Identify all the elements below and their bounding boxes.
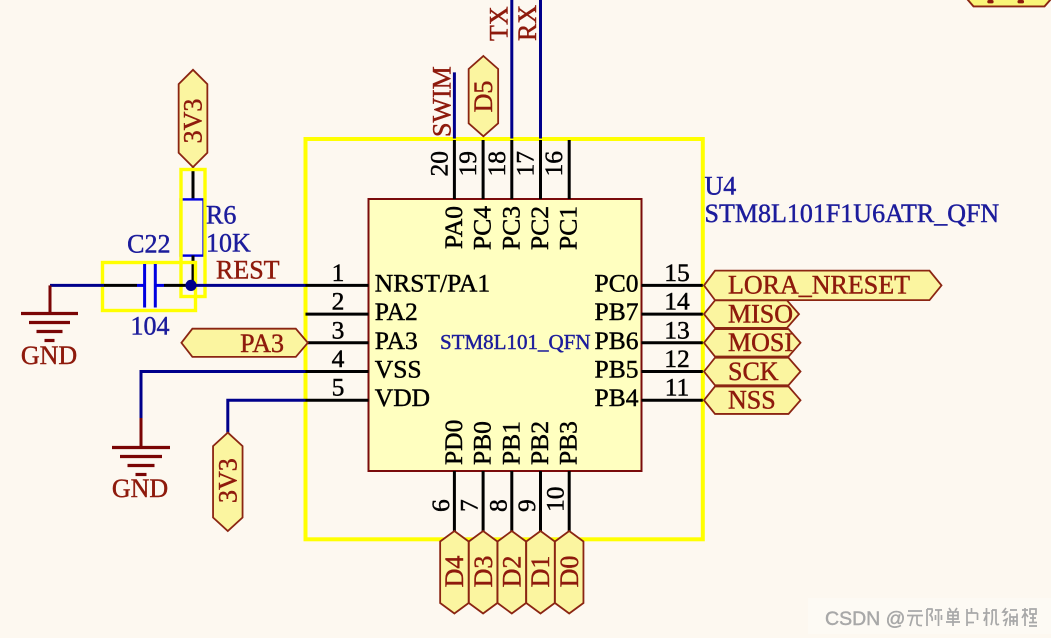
svg-text:10K: 10K [206,229,251,258]
svg-text:PB4: PB4 [595,383,639,412]
pin 13 (PB6) right [595,315,703,355]
wire left of C22 (blue) [50,284,104,287]
svg-text:MISO: MISO [728,299,793,328]
svg-text:3V3: 3V3 [214,458,243,503]
svg-text:1: 1 [332,258,345,287]
pin 6 (PD0) bottom [426,420,468,531]
svg-text:104: 104 [131,312,170,341]
svg-text:15: 15 [664,258,690,287]
selection highlight box around R6 [181,170,205,297]
wire VDD (pin 5) to 3V3 [228,400,306,432]
svg-text:8: 8 [483,499,512,512]
svg-text:PB1: PB1 [496,421,525,465]
svg-text:PC2: PC2 [525,206,554,250]
wire GND to C22 (black segment) [104,284,137,287]
svg-text:CSDN @: CSDN @ [825,608,905,630]
wire junction to pin 1 (REST net) [191,284,306,287]
pin 14 (PB7) right [595,287,703,327]
svg-text:14: 14 [664,287,690,316]
svg-text:NSS: NSS [728,386,776,415]
svg-text:RX: RX [513,5,542,41]
svg-text:U4: U4 [705,172,737,201]
pin 11 (PB4) right [595,373,703,413]
svg-text:18: 18 [482,151,511,177]
net flag D4 (pin 6) [440,531,469,614]
net flag D1 (pin 9) [526,531,555,614]
wire SWIM net (pin 20) [453,72,456,138]
svg-text:D2: D2 [498,556,527,588]
junction dot REST node [185,280,196,291]
resistor R6 body [181,199,204,255]
svg-text:7: 7 [455,499,484,512]
pin 15 (PC0) right [595,258,703,298]
net flag D2 (pin 8) [498,531,527,614]
ground symbol GND (VSS) [112,418,170,503]
svg-text:R6: R6 [206,201,236,230]
pin 12 (PB5) right [595,344,703,384]
watermark CSDN @wuji mcu programming [808,598,1051,634]
svg-text:PB3: PB3 [554,421,583,465]
svg-text:PB7: PB7 [595,297,639,326]
net flag SCK (pin 12) [704,357,801,386]
op-amp U4 body (IC STM8L101) [369,199,642,471]
wire TX net (pin 18) [510,0,513,139]
ground symbol GND (left of C22) [21,285,78,370]
svg-text:GND: GND [21,341,77,370]
svg-text:SWIM: SWIM [428,66,457,137]
net flag PA3 (pin 3) [181,329,307,358]
pin 10 (PB3) bottom [541,421,583,531]
pin 19 (PC4) top [453,140,497,250]
pin 20 (PA0) top [424,140,468,249]
svg-text:19: 19 [453,151,482,177]
svg-text:PD0: PD0 [439,420,468,465]
svg-text:D3: D3 [469,556,498,588]
svg-text:D5: D5 [469,81,498,113]
net flag MISO (pin 14) [704,299,799,328]
pin 16 (PC1) top [539,140,583,250]
pin 2 (PA2) left [306,287,418,327]
wire VSS (pin 4) to ground [141,372,306,419]
pin 1 (NRST/PA1) left [306,258,491,298]
net flag D3 (pin 7) [469,531,498,614]
selection highlight box around U4 [306,139,703,539]
svg-text:REST: REST [216,256,280,285]
wire R6 to REST node [192,256,195,286]
net flag D0 (pin 10) [555,531,584,614]
svg-text:10: 10 [541,487,570,513]
svg-text:4: 4 [332,344,345,373]
wire C22 to junction (black) [164,284,191,287]
svg-text:PC3: PC3 [496,206,525,250]
svg-text:12: 12 [664,344,690,373]
svg-text:NRST/PA1: NRST/PA1 [375,268,490,297]
svg-text:5: 5 [332,373,345,402]
svg-text:PC1: PC1 [554,206,583,250]
svg-text:PA0: PA0 [439,206,468,249]
pin 3 (PA3) left [306,315,418,355]
net flag LORA_NRESET (pin 15) [704,271,942,301]
svg-text:16: 16 [539,151,568,177]
svg-text:D1: D1 [526,556,555,588]
net flag MOSI (pin 13) [704,328,801,357]
net flag D5 (pin 19) [469,56,499,136]
pin 9 (PB2) bottom [512,421,554,531]
svg-text:2: 2 [332,287,345,316]
pin 7 (PB0) bottom [455,421,497,531]
svg-text:LORA_NRESET: LORA_NRESET [728,271,910,300]
pin 4 (VSS) left [306,344,422,384]
svg-text:13: 13 [664,315,690,344]
svg-text:PC0: PC0 [595,268,639,297]
svg-text:9: 9 [512,499,541,512]
svg-text:PC4: PC4 [468,206,497,250]
pin 18 (PC3) top [482,140,526,250]
svg-text:3: 3 [332,315,345,344]
power flag 3V3 (VDD) [213,433,243,531]
svg-text:VDD: VDD [375,383,430,412]
svg-text:C22: C22 [127,230,170,259]
svg-text:SCK: SCK [728,357,779,386]
svg-text:STM8L101_QFN: STM8L101_QFN [440,330,591,354]
svg-text:20: 20 [424,151,453,177]
wire RX net (pin 17) [539,0,542,139]
svg-text:STM8L101F1U6ATR_QFN: STM8L101F1U6ATR_QFN [705,199,1000,228]
partial net flag (top right, cut off) [965,0,1051,6]
svg-text:6: 6 [426,499,455,512]
pin 17 (PC2) top [511,140,555,250]
svg-text:D0: D0 [555,556,584,588]
svg-text:GND: GND [112,474,168,503]
svg-text:D4: D4 [440,556,469,588]
wire 3V3 flag to R6 [192,168,195,200]
svg-text:PB2: PB2 [525,421,554,465]
svg-text:17: 17 [511,151,540,177]
svg-text:VSS: VSS [375,355,422,384]
svg-text:11: 11 [665,373,690,402]
svg-text:PA2: PA2 [375,297,418,326]
selection highlight box around C22 [103,263,196,311]
capacitor C22 [137,264,164,308]
net flag NSS (pin 11) [704,386,801,415]
svg-text:PA3: PA3 [375,326,418,355]
svg-text:TX: TX [484,6,513,41]
svg-text:PB0: PB0 [468,421,497,465]
power flag 3V3 (top, above R6) [179,70,208,167]
pin 8 (PB1) bottom [483,421,525,531]
svg-text:3V3: 3V3 [179,99,208,144]
svg-text:PB6: PB6 [595,326,639,355]
pin 5 (VDD) left [306,373,431,413]
svg-text:PA3: PA3 [240,329,284,358]
svg-text:PB5: PB5 [595,355,639,384]
svg-text:MOSI: MOSI [728,328,793,357]
